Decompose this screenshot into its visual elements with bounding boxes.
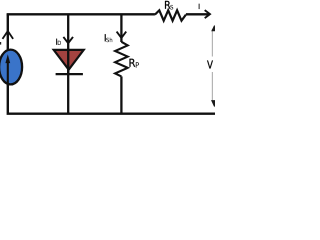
resistor RS zigzag [155,10,186,20]
voltage arrow bottom head [211,100,218,107]
label I_Sh main [104,34,107,41]
voltage arrow line upper segment [211,29,213,57]
diode branch wire [67,14,69,113]
label I output [198,4,201,9]
current source U1 ellipse [0,50,22,85]
wire over diode [67,50,69,74]
label R_P main [130,59,136,67]
diode current ID arrowhead [63,37,73,43]
wire top rail [7,13,155,15]
shunt branch wire upper [120,14,122,42]
label R_S sub [170,5,173,10]
shunt current ISh arrowhead [117,32,127,38]
wire top right segment to arrow [186,13,210,15]
resistor RP zigzag [115,42,128,77]
current source IL arrow on wire (open arrowhead) [3,31,14,39]
output current I arrowhead [205,10,210,18]
current source internal arrow shaft [7,62,9,86]
wire left + bottom rail [8,14,215,113]
label I_D sub [58,41,61,45]
label R_P sub [136,62,139,67]
voltage arrow top head [211,25,217,31]
current source internal arrowhead [5,54,10,63]
label R_S main [165,1,170,9]
label I_Sh sub [106,38,112,43]
voltage arrow line lower segment [211,72,213,101]
label I_D main [55,39,58,45]
label fragment cut at left edge [0,42,1,45]
label V [207,60,213,68]
shunt branch wire lower [120,76,122,113]
diode cathode bar [56,73,83,75]
diode D1 triangle [54,50,84,70]
